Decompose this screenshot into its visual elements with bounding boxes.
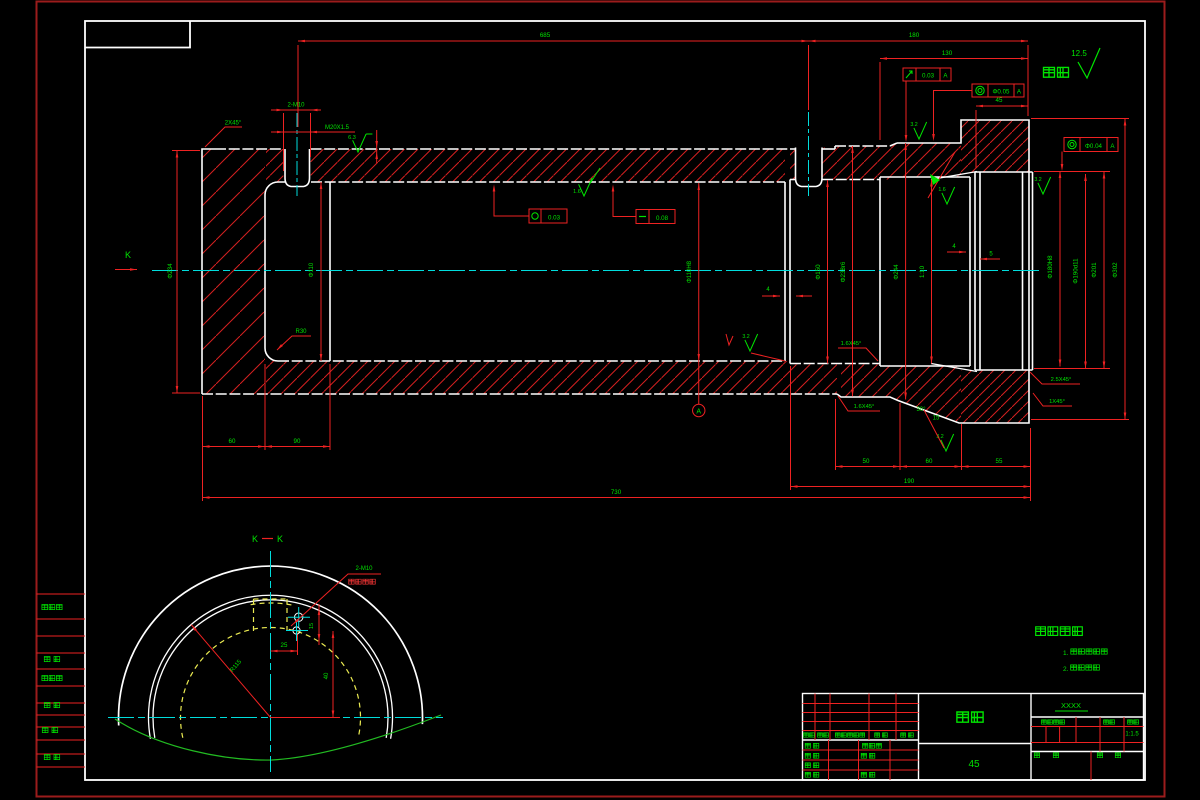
chamfer 2.5x45 right xyxy=(1030,372,1080,384)
dim phi238 xyxy=(852,146,854,397)
svg-text:Φ302: Φ302 xyxy=(1112,262,1119,278)
tolerance frame roundness 0.03 xyxy=(529,209,567,223)
hatch top band xyxy=(266,149,284,182)
hatch section C top xyxy=(890,143,961,177)
svg-text:1:10: 1:10 xyxy=(919,265,926,278)
dim phi201 xyxy=(1103,172,1105,369)
dim 685 top chain xyxy=(298,40,809,42)
dim 130 xyxy=(880,58,1028,60)
chamfer label 2x45 top-left xyxy=(205,127,242,147)
svg-text:2.: 2. xyxy=(1063,666,1069,673)
dim 45 flange xyxy=(976,105,1028,107)
svg-text:50: 50 xyxy=(863,458,870,465)
roughness 1.6 on section B top xyxy=(914,122,927,139)
svg-text:15: 15 xyxy=(933,416,940,422)
svg-text:3.2: 3.2 xyxy=(910,122,917,128)
svg-text:1:1.5: 1:1.5 xyxy=(1125,732,1139,738)
dim 90 bottom xyxy=(265,446,330,448)
section dim 15 xyxy=(318,604,320,645)
svg-text:12.5: 12.5 xyxy=(1071,49,1087,58)
svg-text:Φ0.04: Φ0.04 xyxy=(1085,143,1103,150)
dim phi150 bore xyxy=(827,180,829,364)
right end bore xyxy=(974,172,976,370)
chamfer 1x45 right xyxy=(1033,393,1072,406)
svg-text:Φ190d11: Φ190d11 xyxy=(1073,258,1080,284)
surface note qiyu 12.5 xyxy=(1044,67,1069,77)
port hole 2 xyxy=(796,148,823,187)
bore corner radius label R30 xyxy=(277,336,311,350)
svg-text:60: 60 xyxy=(229,438,236,445)
svg-text:R30: R30 xyxy=(295,329,307,335)
tolerance frame straightness 0.08 xyxy=(636,210,675,224)
top-left detail box xyxy=(85,21,190,48)
svg-text:15: 15 xyxy=(309,623,315,629)
section dim 25 xyxy=(271,650,298,652)
ext lines right end xyxy=(1031,118,1129,120)
svg-text:685: 685 xyxy=(540,32,551,39)
svg-text:2.5X45°: 2.5X45° xyxy=(1051,377,1072,383)
dim 190 xyxy=(791,486,1031,488)
small dim 5 top edge xyxy=(376,130,378,163)
small dim 4 wall xyxy=(762,295,780,297)
title block outline xyxy=(803,694,1144,781)
part outer profile top edge xyxy=(215,148,284,150)
chain dim 50 xyxy=(836,466,901,468)
bore phi110 outline xyxy=(311,181,785,183)
svg-text:Φ110H8: Φ110H8 xyxy=(687,260,693,283)
svg-text:M20X1.5: M20X1.5 xyxy=(325,125,350,131)
svg-text:0.08: 0.08 xyxy=(656,215,669,222)
svg-text:0.03: 0.03 xyxy=(548,215,561,222)
section dim 40 vertical xyxy=(271,717,341,719)
tolerance frame concentricity 0.04 A xyxy=(1064,138,1118,152)
datum A circle xyxy=(693,404,705,416)
left strip grid xyxy=(37,593,86,595)
svg-text:6.3: 6.3 xyxy=(348,135,356,141)
svg-text:25: 25 xyxy=(281,642,288,649)
title block red grid lower-left xyxy=(803,749,919,751)
svg-text:90: 90 xyxy=(294,438,301,445)
roughness 1.6 taper with leader xyxy=(928,152,955,198)
svg-text:0.03: 0.03 xyxy=(922,73,935,80)
svg-text:K: K xyxy=(277,534,283,544)
bore middle section xyxy=(880,176,970,178)
section hole hidden lines xyxy=(253,599,255,631)
technical notes xyxy=(1036,627,1083,636)
svg-text:40: 40 xyxy=(324,672,330,679)
svg-text:K: K xyxy=(252,534,258,544)
svg-text:Φ244: Φ244 xyxy=(893,264,900,280)
chain dim 55 xyxy=(962,466,1031,468)
bore phi116 section xyxy=(790,179,796,181)
section hole cross 1 xyxy=(295,613,303,621)
chain dim 60 xyxy=(900,466,962,468)
svg-text:Φ110: Φ110 xyxy=(309,262,315,277)
svg-text:Φ0.05: Φ0.05 xyxy=(993,89,1011,96)
hatch flange bottom xyxy=(961,370,1029,423)
section bore double arc xyxy=(148,595,392,738)
dim phi180H8 xyxy=(1059,171,1061,367)
section centerline horizontal xyxy=(108,717,443,719)
svg-text:730: 730 xyxy=(611,489,622,496)
bore end wall xyxy=(784,182,786,361)
title block red grid upper-left xyxy=(803,703,919,705)
svg-text:60: 60 xyxy=(926,458,933,465)
svg-text:1.6X45°: 1.6X45° xyxy=(841,341,862,347)
groove dim 4 xyxy=(947,251,966,253)
dim phi190 xyxy=(1085,174,1087,369)
port hole 1 centerline xyxy=(296,113,298,196)
svg-text:1.6X45°: 1.6X45° xyxy=(854,404,875,410)
svg-text:3.2: 3.2 xyxy=(742,334,749,340)
dim 180 top chain xyxy=(809,40,1029,42)
svg-text:3.2: 3.2 xyxy=(1034,177,1041,183)
left strip labels xyxy=(42,605,62,610)
svg-text:Φ150: Φ150 xyxy=(815,264,822,280)
svg-text:K: K xyxy=(125,250,131,260)
section outer arc xyxy=(119,566,423,725)
svg-text:XXXX: XXXX xyxy=(1061,701,1081,710)
chamfer 1.6x45 bottom xyxy=(838,396,880,411)
svg-text:45: 45 xyxy=(968,759,980,770)
groove dim 5 xyxy=(980,258,1000,260)
svg-text:130: 130 xyxy=(942,50,953,57)
hole1 dim 2-M10 xyxy=(271,109,321,111)
section radius dim R xyxy=(191,625,270,718)
section hidden arc r90 xyxy=(181,627,361,737)
part outer profile left face xyxy=(202,149,215,394)
title block labels xyxy=(804,733,815,737)
bore taper lines xyxy=(931,172,977,180)
bore counterbore step xyxy=(329,182,331,361)
dim taper 1:10 xyxy=(931,180,933,364)
hole1 dim M20x1.5 xyxy=(271,131,355,133)
svg-text:A: A xyxy=(696,409,701,416)
svg-text:190: 190 xyxy=(904,478,915,485)
section hole leader xyxy=(291,574,381,626)
hatch flange top xyxy=(961,120,1029,172)
section hidden arc r118 (thread) xyxy=(251,603,295,606)
dim phi110H8 with datum A xyxy=(698,183,700,404)
dim phi110 bore left xyxy=(320,182,322,361)
svg-text:55: 55 xyxy=(996,458,1003,465)
svg-text:180: 180 xyxy=(909,32,920,39)
hatch left wall block (sparse) xyxy=(202,149,265,394)
dim 60 bottom xyxy=(203,446,266,448)
svg-text:2-M10: 2-M10 xyxy=(355,566,373,572)
roughness 1.6 on bore top xyxy=(579,178,593,196)
svg-text:1.6: 1.6 xyxy=(573,189,581,195)
svg-text:2X45°: 2X45° xyxy=(225,121,242,127)
section hole cross 2 xyxy=(293,627,300,634)
roughness 3.2 cone xyxy=(941,434,954,451)
tolerance frame runout 0.03 A xyxy=(903,68,951,81)
svg-text:1.6: 1.6 xyxy=(938,187,945,193)
chamfer 1.6x45 inside bore xyxy=(838,348,878,361)
hatch top band right of bore end xyxy=(790,148,796,180)
tolerance frame concentricity 0.05 A xyxy=(972,84,1024,97)
section break green curve xyxy=(115,715,441,760)
part outer profile right steps xyxy=(835,120,1029,423)
dim phi244 xyxy=(905,143,907,400)
title block red grid right xyxy=(1031,726,1144,728)
section centerline vertical xyxy=(270,551,272,772)
roughness 3.2 right bore xyxy=(1038,177,1051,194)
roughness 3.2 inside bore bottom xyxy=(745,334,758,351)
svg-text:Φ234: Φ234 xyxy=(167,263,174,279)
svg-text:1.: 1. xyxy=(1063,650,1069,657)
svg-text:Φ201: Φ201 xyxy=(1091,262,1098,278)
svg-text:2-M10: 2-M10 xyxy=(287,103,305,109)
main axis centerline xyxy=(152,270,1042,272)
roughness 6.3 near hole1 xyxy=(353,134,367,152)
part name xyxy=(957,712,983,722)
dim phi302 flange xyxy=(1124,119,1126,420)
svg-text:45: 45 xyxy=(996,97,1003,104)
svg-text:Φ238r6: Φ238r6 xyxy=(840,261,847,282)
part outer profile bottom edge xyxy=(202,393,837,395)
hatch bottom right of bore end xyxy=(790,364,837,395)
hatch section C bottom (cone) xyxy=(890,366,961,423)
port hole 2 centerline xyxy=(808,112,810,196)
dim phi234 left xyxy=(176,151,178,394)
svg-text:1X45°: 1X45° xyxy=(1049,399,1065,405)
dim 730 overall xyxy=(203,497,1031,499)
hatch bottom band xyxy=(266,361,790,394)
svg-text:Φ180H8: Φ180H8 xyxy=(1047,255,1054,279)
port hole 1 xyxy=(285,149,310,187)
